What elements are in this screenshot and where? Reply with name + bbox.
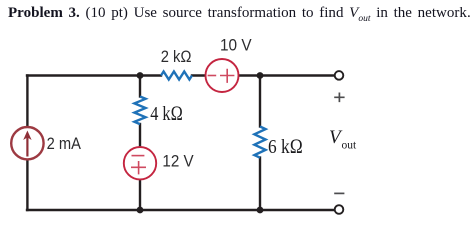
wire 10V source to node B (238, 74, 339, 76)
current source I1 2mA circle (11, 127, 43, 159)
title text (8, 5, 471, 24)
wire between 2k resistor and 10V source (192, 74, 206, 76)
terminal top open circle (335, 71, 344, 80)
svg-text:2 mA: 2 mA (47, 135, 81, 153)
svg-text:2 kΩ: 2 kΩ (161, 48, 192, 66)
junction node C (140,210) (137, 207, 144, 214)
V1 minus sign (208, 75, 217, 77)
svg-text:out: out (342, 140, 358, 152)
svg-text:12 V: 12 V (162, 153, 193, 171)
resistor 2 kOhm zigzag (161, 72, 192, 80)
V2 plus sign (131, 161, 146, 174)
svg-text:4 kΩ: 4 kΩ (150, 103, 183, 125)
wire right branch lower (259, 158, 261, 211)
junction node D (260,210) (257, 207, 264, 214)
I1 arrow (26, 136, 28, 157)
V1 plus sign (220, 69, 234, 83)
resistor 6 kOhm zigzag (254, 127, 265, 158)
minus polarity mark near Vout (334, 192, 344, 194)
junction node B (260,75) (257, 72, 264, 79)
wire bottom horizontal (27, 209, 339, 211)
voltage source V1 10V circle (206, 59, 239, 92)
wire middle branch lower (139, 179, 141, 210)
plus polarity mark near Vout (334, 93, 344, 103)
wire middle branch between 4k and 12V (139, 124, 141, 148)
V2 minus sign (132, 155, 145, 157)
svg-text:6 kΩ: 6 kΩ (268, 136, 303, 158)
wire left vertical lower (26, 160, 28, 211)
wire left vertical upper (26, 76, 28, 128)
terminal bottom open circle (335, 205, 344, 214)
svg-text:10 V: 10 V (220, 37, 252, 55)
wire middle branch upper (139, 76, 141, 97)
wire right branch upper (259, 76, 261, 127)
voltage source V2 12V circle (124, 147, 156, 179)
resistor 4 kOhm zigzag (134, 97, 145, 125)
wire top-left horizontal (27, 74, 161, 76)
junction node A (140,75) (137, 72, 144, 79)
